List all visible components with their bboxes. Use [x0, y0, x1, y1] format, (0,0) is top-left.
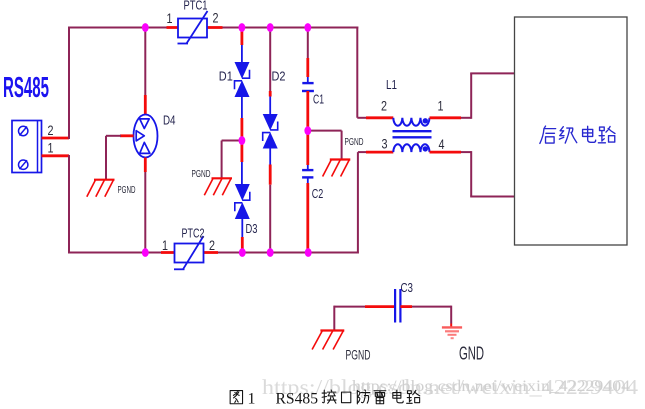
node: C1/C2 mid junction: [304, 126, 311, 135]
wire: bottom rail (net B) right segment: [204, 251, 359, 254]
capacitor C3: [395, 289, 400, 323]
wire: net B bottom-right corner up to L1 pin 3: [358, 152, 393, 253]
wire: node A to C1: [307, 28, 309, 84]
wire: D2 to node B: [269, 149, 271, 253]
svg-text:RS485: RS485: [3, 72, 49, 104]
svg-text:C2: C2: [312, 186, 324, 201]
svg-text:2: 2: [381, 99, 387, 114]
ground PGND (at D4): [87, 180, 115, 197]
gas discharge tube D4: [134, 115, 158, 158]
svg-text:2: 2: [209, 238, 215, 253]
wire: PGND net to C3 left plate: [334, 306, 395, 331]
wire: D4 left electrode to PGND: [106, 136, 134, 180]
node: junction dots on net B: [142, 248, 312, 257]
resistor PTC2 (thermistor): [174, 236, 204, 269]
svg-text:L1: L1: [386, 77, 397, 92]
node: D1/D3 mid junction: [239, 136, 246, 145]
svg-text:RS485: RS485: [276, 391, 319, 408]
ground PGND (at D3): [204, 178, 232, 195]
wire: D3 to node B: [241, 219, 243, 253]
TVS diode D2: [263, 114, 278, 149]
wire: connector pin 2 to node A vertical: [42, 28, 70, 140]
svg-text:1: 1: [167, 11, 173, 26]
wire: top rail (net A) right segment: [207, 26, 358, 29]
wire: top rail (net A) left segment: [68, 27, 178, 29]
svg-text:PTC2: PTC2: [182, 226, 205, 241]
svg-text:1: 1: [248, 391, 256, 408]
wire: net A top-right corner down to L1 pin 2: [357, 27, 393, 118]
svg-text:PGND: PGND: [192, 169, 211, 180]
node: junction dots on net A: [142, 23, 311, 32]
TVS diode D1: [235, 62, 250, 97]
text 后级电路: [540, 126, 615, 143]
wire: node A to D1: [240, 28, 243, 63]
wire: mid node to C2: [306, 131, 309, 170]
svg-text:4: 4: [439, 137, 445, 152]
svg-text:1: 1: [48, 141, 54, 156]
svg-text:1: 1: [162, 238, 168, 253]
wire: bottom rail (net B) left segment: [68, 252, 175, 254]
svg-text:D2: D2: [272, 69, 286, 84]
wire: node A to D2: [269, 28, 271, 115]
connector J1 (RS485 screw terminal): [12, 121, 42, 173]
wire: D1 to mid node: [241, 97, 243, 141]
svg-text:C3: C3: [401, 280, 414, 295]
svg-text:GND: GND: [459, 344, 484, 364]
svg-text:C1: C1: [313, 92, 324, 107]
svg-text:3: 3: [382, 137, 388, 152]
svg-text:PGND: PGND: [118, 185, 136, 196]
svg-text:D3: D3: [246, 221, 258, 236]
svg-text:2: 2: [213, 11, 219, 26]
wire: mid node to D3: [240, 141, 243, 185]
capacitor C1: [302, 83, 314, 91]
wire: C2 to node B: [307, 177, 309, 252]
ground PGND (at C2): [323, 160, 351, 177]
resistor PTC1 (thermistor): [178, 11, 208, 44]
wire: C1 to mid node: [306, 91, 309, 131]
caption: figure 1 RS485 lightning protection: [230, 390, 420, 408]
svg-text:PTC1: PTC1: [184, 0, 208, 13]
wire: L1 pin 1 to load box: [430, 73, 516, 118]
svg-text:D4: D4: [163, 113, 176, 128]
svg-text:D1: D1: [219, 69, 233, 84]
capacitor C2: [302, 170, 313, 177]
wire: connector pin 1 to node B vertical: [42, 155, 70, 253]
svg-text:1: 1: [438, 99, 444, 114]
block: rear-stage circuit box: [515, 17, 628, 245]
svg-text:2: 2: [48, 123, 54, 138]
TVS diode D3: [235, 184, 250, 219]
common-mode choke L1: [393, 118, 432, 152]
svg-text:PGND: PGND: [345, 137, 364, 148]
wire: L1 pin 4 to load box: [430, 151, 516, 196]
wire: D4 bottom to node B: [144, 158, 147, 253]
wire: mid node to PGND (at C2): [308, 131, 342, 160]
wire: C3 right plate to GND: [400, 306, 451, 327]
ground GND (earth): [442, 327, 462, 338]
wire: mid node to PGND (at D3): [222, 141, 242, 178]
ground PGND (at C3): [312, 331, 344, 350]
wire: node A to D4 top: [144, 28, 146, 115]
svg-text:PGND: PGND: [346, 348, 371, 363]
